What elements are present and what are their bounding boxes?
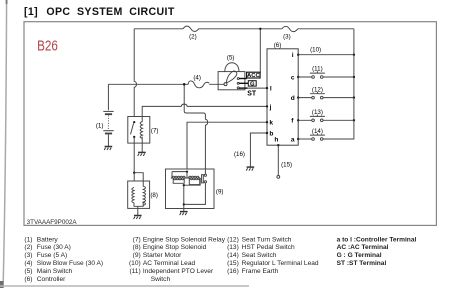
switch S12 seat turn switch (pin d) [298, 92, 354, 99]
main switch S5 terminal G pin [237, 82, 239, 84]
svg-text:(8): (8) [133, 244, 141, 251]
fuse F4 slow blow (30A) [188, 81, 209, 88]
svg-text:(14): (14) [227, 252, 239, 259]
switch S11 independent PTO lever switch (pin c) [298, 71, 354, 78]
solenoid L8 hold winding [132, 187, 134, 203]
wire ACC drop [259, 29, 261, 73]
svg-text:(2): (2) [189, 33, 197, 40]
main switch S5 terminal ACC pin [237, 78, 239, 80]
relay K7 lower contact dot [133, 136, 135, 138]
svg-text:(10): (10) [310, 47, 321, 54]
fuse F3 (5A) [282, 26, 298, 31]
starter M9 internal feed bar [172, 172, 187, 178]
svg-text:(10): (10) [129, 260, 141, 267]
wire top B+ rail [134, 28, 183, 30]
main switch S5 dome arc [225, 63, 239, 72]
junction node starter ground bus [183, 203, 185, 205]
node pin c [297, 76, 299, 78]
fuse F2 (30A) [183, 26, 199, 31]
main switch S5 rotor pivot circle [224, 83, 227, 86]
junction node ACC tap on B+ rail [259, 28, 261, 30]
svg-text:a to l :Controller Terminal: a to l :Controller Terminal [337, 236, 417, 243]
node pin l [266, 87, 268, 89]
svg-text:(7): (7) [133, 236, 141, 243]
main switch S5 (key switch) [218, 63, 245, 90]
svg-text:Seat Switch: Seat Switch [242, 252, 277, 259]
svg-text:f: f [291, 118, 294, 125]
wire relay K7 coil to controller pin j (hops starter drop) [142, 104, 267, 121]
svg-text:G: G [250, 81, 255, 87]
junction node solenoid feed [133, 172, 135, 174]
node pin h [277, 144, 279, 146]
svg-text:b: b [269, 130, 273, 137]
svg-text:[1]: [1] [24, 6, 38, 18]
svg-text:d: d [291, 95, 295, 102]
wire ST terminal to controller pin l [239, 87, 267, 89]
wire to solenoid L8 pull-in winding [134, 173, 143, 187]
svg-text:(15): (15) [227, 260, 239, 267]
svg-text:Engine Stop Solenoid Relay: Engine Stop Solenoid Relay [143, 236, 226, 243]
starter M9 box outline [166, 169, 215, 209]
svg-text:(11): (11) [312, 66, 323, 73]
svg-text:Fuse (30 A): Fuse (30 A) [37, 244, 71, 251]
wire fuse F2 to ACC tap and fuse F3 [199, 28, 282, 30]
svg-text:Fuse (5 A): Fuse (5 A) [37, 252, 67, 259]
starter M9 solenoid contact terminals [204, 174, 206, 176]
svg-text:(13): (13) [227, 244, 239, 251]
switch S14 seat switch (pin a) [298, 133, 325, 140]
legend column 3 [227, 236, 319, 275]
node pin k [266, 121, 268, 123]
relay K7 coil [140, 122, 142, 139]
svg-text:(6): (6) [24, 276, 32, 283]
svg-text:(5): (5) [227, 55, 235, 62]
svg-text:j: j [269, 104, 272, 111]
svg-text:(9): (9) [216, 188, 224, 195]
svg-text:(11): (11) [129, 268, 140, 275]
svg-text:(7): (7) [151, 128, 159, 135]
ground starter M9 [180, 212, 188, 216]
svg-text:B26: B26 [37, 37, 58, 54]
svg-text:(12): (12) [312, 87, 323, 94]
svg-text:(6): (6) [274, 42, 282, 49]
svg-text:(12): (12) [227, 236, 239, 243]
svg-text:k: k [269, 120, 273, 127]
ground frame earth (16) [246, 167, 254, 171]
wire feed junction to starter M9 contact (hops k wire) [184, 84, 207, 169]
svg-text:Frame Earth: Frame Earth [242, 268, 279, 275]
wire battery BT1 positive lead [107, 84, 109, 110]
wire starter M9 bottom bus [184, 183, 206, 205]
svg-text:(4): (4) [193, 74, 201, 81]
solenoid L8 (engine stop solenoid) [128, 172, 150, 216]
svg-text:(9): (9) [133, 252, 141, 259]
wire starter M9 armature return [184, 178, 200, 204]
junction node bus row d [353, 96, 355, 98]
svg-text:HST Pedal Switch: HST Pedal Switch [242, 244, 295, 251]
svg-text:(5): (5) [24, 268, 32, 275]
diagram frame [24, 22, 436, 226]
svg-text:(14): (14) [312, 128, 323, 135]
svg-text:(16): (16) [234, 151, 245, 158]
wire solenoid L8 windings to ground [134, 201, 143, 215]
junction node bus row c [353, 76, 355, 78]
starter M9 field winding 1 [172, 176, 185, 178]
svg-text:ST: ST [247, 91, 257, 98]
svg-text:c: c [291, 74, 295, 81]
wire B+ rail to relay K7 contact (hops battery feed) [134, 29, 136, 117]
ground solenoid L8 [134, 216, 142, 220]
main switch S5 terminal ST pin [237, 87, 239, 89]
wire frame earth 16 to controller pin b [250, 133, 267, 167]
wire relay K7 coil to ground [141, 137, 143, 153]
scan page edge bottom [0, 285, 249, 287]
relay K7 (engine stop solenoid relay) [128, 117, 150, 182]
terminal lead ST [239, 87, 248, 89]
svg-text:Controller: Controller [37, 276, 66, 283]
svg-text:(1): (1) [24, 236, 32, 243]
wire starter M9 to ground [183, 204, 185, 211]
relay K7 contact arm [131, 123, 134, 134]
starter M9 brush bracket 1 [173, 178, 184, 183]
wire relay K7 contact to solenoid L8 [133, 137, 135, 181]
solenoid L8 box outline [128, 181, 150, 208]
svg-text:(15): (15) [281, 162, 292, 169]
wire right bus [323, 29, 354, 139]
ground relay K7 coil [138, 152, 146, 156]
legend column 1 [24, 236, 103, 283]
svg-text:Switch: Switch [151, 276, 171, 283]
junction node bus row f [353, 119, 355, 121]
svg-text:Starter Motor: Starter Motor [143, 252, 182, 259]
svg-text:Engine Stop Solenoid: Engine Stop Solenoid [143, 244, 207, 251]
wire 10 AC terminal lead (pin i to bus) [298, 54, 354, 56]
wire starter M9 solenoid contact feed [204, 169, 206, 174]
svg-text:(4): (4) [24, 260, 32, 267]
svg-text:Independent PTO Lever: Independent PTO Lever [143, 268, 214, 275]
svg-text:Battery: Battery [37, 236, 59, 243]
starter M9 armature line [171, 177, 200, 179]
svg-text:Slow Blow Fuse (30 A): Slow Blow Fuse (30 A) [37, 260, 103, 267]
wire starter M9 feed to armature [186, 172, 188, 178]
solenoid L8 pull winding [143, 186, 145, 205]
svg-text:OPC SYSTEM CIRCUIT: OPC SYSTEM CIRCUIT [46, 6, 174, 18]
ground battery BT1 [104, 147, 112, 151]
svg-text:(2): (2) [24, 244, 32, 251]
svg-text:(3): (3) [24, 252, 32, 259]
svg-text:(1): (1) [96, 122, 104, 129]
node pin f [297, 119, 299, 121]
wire 15 regulator L terminal lead from pin h [277, 145, 279, 175]
junction node starter armature return [183, 184, 185, 186]
junction node bus row i [353, 54, 355, 56]
svg-text:(16): (16) [227, 268, 239, 275]
svg-text:AC :AC Terminal: AC :AC Terminal [337, 244, 389, 251]
starter motor M9 [166, 169, 215, 211]
terminal lead ACC [239, 78, 247, 80]
svg-text:a: a [291, 136, 295, 143]
svg-text:G : G Terminal: G : G Terminal [337, 252, 382, 259]
node pin a [297, 138, 299, 140]
svg-text:i: i [292, 52, 294, 59]
svg-text:ST :ST Terminal: ST :ST Terminal [337, 260, 387, 267]
starter M9 solenoid contact plate [202, 175, 204, 183]
terminal lead G [239, 82, 248, 84]
relay K7 box outline [128, 117, 150, 144]
svg-text:(8): (8) [150, 192, 158, 199]
svg-text:(13): (13) [312, 109, 323, 116]
legend column 2 [129, 236, 226, 283]
wire fuse F3 to right bus [298, 28, 354, 30]
relay K7 upper contact dot [133, 121, 135, 123]
junction node battery feed / starter drop [183, 83, 186, 86]
svg-text:h: h [274, 136, 278, 143]
scan page edge left [3, 0, 7, 288]
node pin b [266, 132, 268, 134]
main switch S5 body outline [218, 72, 245, 90]
starter M9 field winding 2 [189, 176, 199, 178]
wire starter M9 field to controller pin k [187, 122, 267, 169]
legend column 4 [337, 236, 417, 267]
junction node starter feed [186, 170, 188, 172]
node pin j [266, 105, 268, 107]
svg-text:Regulator L Terminal Lead: Regulator L Terminal Lead [242, 260, 319, 267]
switch S13 HST pedal switch (pin f) [298, 115, 354, 122]
svg-text:AC Terminal Lead: AC Terminal Lead [143, 260, 196, 267]
svg-text:3TVAAAF9P002A: 3TVAAAF9P002A [27, 219, 78, 226]
svg-text:l: l [270, 86, 272, 93]
svg-text:Seat Turn Switch: Seat Turn Switch [242, 236, 292, 243]
svg-text:Main Switch: Main Switch [37, 268, 73, 275]
battery BT1 plates and cell dots [103, 110, 113, 112]
wire battery feed to main switch S5 [108, 83, 224, 85]
controller U6 box [267, 49, 298, 145]
svg-text:ACC: ACC [247, 73, 261, 79]
starter M9 brush bracket 2 [189, 178, 199, 185]
node pin d [297, 96, 299, 98]
node pin i [297, 54, 299, 56]
main switch S5 key rotor [226, 71, 237, 83]
svg-text:(3): (3) [283, 33, 291, 40]
